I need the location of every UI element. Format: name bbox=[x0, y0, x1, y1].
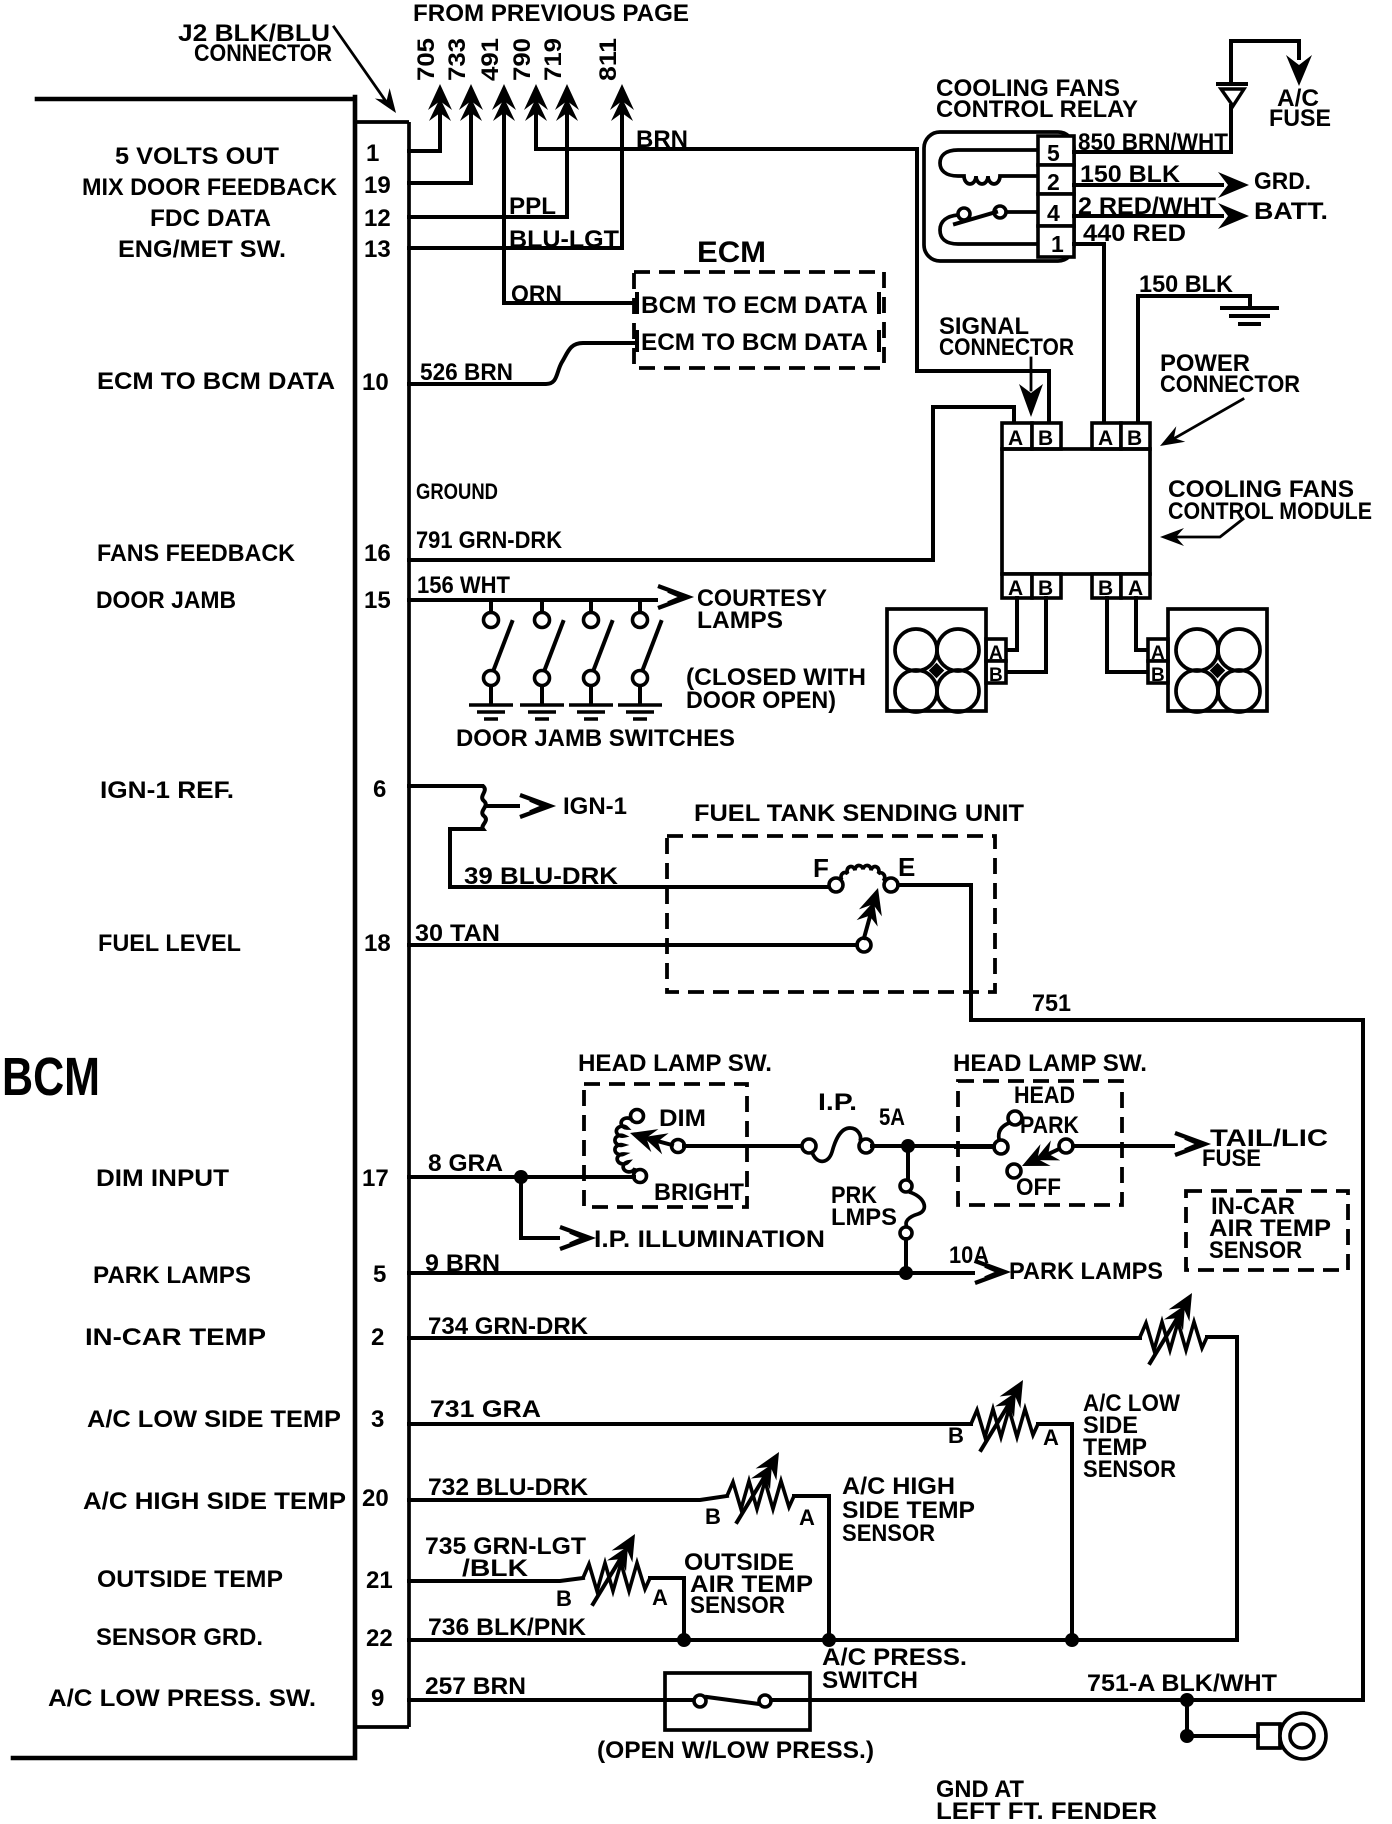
svg-text:PARK: PARK bbox=[1020, 1112, 1080, 1139]
cooling fans control module box bbox=[1002, 449, 1150, 574]
wire 705 arrow up bbox=[428, 84, 452, 151]
svg-text:19: 19 bbox=[364, 172, 391, 199]
svg-text:20: 20 bbox=[362, 1485, 389, 1512]
relay hook pin1 to armature bbox=[940, 215, 1038, 244]
svg-text:FROM PREVIOUS PAGE: FROM PREVIOUS PAGE bbox=[413, 0, 689, 27]
svg-text:790: 790 bbox=[509, 38, 536, 81]
svg-text:SENSOR: SENSOR bbox=[1209, 1237, 1302, 1264]
svg-text:B: B bbox=[989, 665, 1003, 686]
svg-text:IGN-1 REF.: IGN-1 REF. bbox=[100, 777, 234, 804]
right fan connector B bbox=[1148, 661, 1168, 686]
svg-text:GROUND: GROUND bbox=[416, 479, 498, 504]
signal connector box A bbox=[1002, 423, 1032, 450]
svg-text:2: 2 bbox=[371, 1324, 384, 1351]
ring terminal eyelet bbox=[1280, 1713, 1326, 1759]
svg-text:A/C HIGH: A/C HIGH bbox=[842, 1473, 955, 1500]
svg-text:A/C LOW SIDE TEMP: A/C LOW SIDE TEMP bbox=[87, 1406, 341, 1433]
leader arrow J2 connector bbox=[334, 27, 403, 118]
wire 8 GRA pin17 to BRIGHT bbox=[409, 1175, 634, 1179]
sender wiper arrow bbox=[856, 884, 890, 938]
svg-text:B: B bbox=[1151, 665, 1165, 686]
resistor a/c low side temp sensor bbox=[971, 1409, 1038, 1437]
wire diode to A/C fuse arrow bbox=[1231, 41, 1312, 86]
svg-text:BCM TO ECM DATA: BCM TO ECM DATA bbox=[641, 292, 868, 319]
svg-text:DOOR JAMB: DOOR JAMB bbox=[96, 587, 236, 614]
sender terminal F bbox=[829, 878, 843, 892]
terminal tick ECM-to-BCM right bbox=[877, 332, 881, 350]
svg-text:A: A bbox=[652, 1585, 668, 1610]
svg-text:18: 18 bbox=[364, 930, 391, 957]
wiper arrow in-car sensor bbox=[1150, 1287, 1202, 1363]
fuse I.P. 5A bbox=[802, 1128, 873, 1161]
wire 491 arrow up bbox=[492, 84, 516, 303]
wire 811 arrow up bbox=[610, 84, 634, 248]
dimmer contact DIM bbox=[631, 1110, 644, 1123]
BCM connector strip J2 bbox=[355, 122, 409, 1727]
resistor a/c high side temp sensor bbox=[727, 1481, 794, 1509]
svg-text:791 GRN-DRK: 791 GRN-DRK bbox=[416, 527, 563, 554]
svg-text:1: 1 bbox=[366, 140, 379, 167]
svg-text:A: A bbox=[1098, 427, 1113, 450]
wire pin6 with squiggle bbox=[409, 786, 486, 887]
svg-text:17: 17 bbox=[362, 1165, 389, 1192]
svg-text:DOOR OPEN): DOOR OPEN) bbox=[686, 687, 836, 714]
door jamb switch 3 bbox=[584, 600, 613, 703]
wire a/c low sensor A to ground bus bbox=[1038, 1424, 1072, 1640]
svg-text:5A: 5A bbox=[879, 1104, 905, 1131]
svg-text:1: 1 bbox=[1051, 231, 1064, 257]
svg-text:BLU-LGT: BLU-LGT bbox=[509, 226, 619, 253]
wire 9 BRN pin5 to park lamps bbox=[409, 1261, 1005, 1283]
svg-text:30 TAN: 30 TAN bbox=[415, 920, 500, 947]
wire 790 arrow up bbox=[524, 84, 548, 149]
wire 39 BLU-DRK to sender F bbox=[450, 885, 829, 889]
ECM dashed box bbox=[634, 272, 884, 368]
relay coil pins 5-2 bbox=[940, 150, 1038, 184]
junction dot outside sensor ground bbox=[677, 1633, 691, 1647]
svg-text:FUEL TANK SENDING UNIT: FUEL TANK SENDING UNIT bbox=[694, 800, 1024, 827]
wire 734 GRN-DRK pin2 to in-car sensor bbox=[409, 1336, 1140, 1340]
svg-text:B: B bbox=[556, 1586, 572, 1611]
svg-text:491: 491 bbox=[477, 38, 504, 81]
wire ORN from 491 to ECM bbox=[504, 301, 631, 305]
relay pin box 1 bbox=[1038, 226, 1074, 257]
svg-text:733: 733 bbox=[444, 38, 471, 81]
svg-text:10: 10 bbox=[362, 369, 389, 396]
svg-text:OUTSIDE TEMP: OUTSIDE TEMP bbox=[97, 1566, 283, 1593]
svg-text:FDC DATA: FDC DATA bbox=[150, 205, 271, 232]
svg-text:PARK LAMPS: PARK LAMPS bbox=[1009, 1258, 1163, 1285]
svg-text:B: B bbox=[705, 1504, 721, 1529]
svg-text:DOOR JAMB SWITCHES: DOOR JAMB SWITCHES bbox=[456, 725, 735, 752]
svg-text:2: 2 bbox=[1047, 169, 1060, 195]
wire outside sensor A to ground bus bbox=[650, 1578, 684, 1640]
svg-text:DIM: DIM bbox=[659, 1105, 706, 1132]
in-car air temp sensor dashed box bbox=[1186, 1191, 1348, 1270]
wire module B to left fan B bbox=[1006, 598, 1046, 672]
svg-text:719: 719 bbox=[540, 38, 567, 81]
svg-text:9: 9 bbox=[371, 1685, 384, 1712]
door jamb switch 2 bbox=[535, 600, 564, 703]
relay switch blade bbox=[955, 212, 996, 224]
wire a/c high sensor A to ground bus bbox=[794, 1496, 829, 1640]
switch contact PARK bbox=[1059, 1139, 1073, 1153]
relay pin box 4 bbox=[1038, 194, 1074, 226]
relay pin box 2 bbox=[1038, 165, 1074, 195]
wire 791 GRN-DRK pin16 to signal connector A bbox=[409, 407, 1014, 560]
svg-text:5: 5 bbox=[1047, 140, 1060, 166]
leader arrow signal connector bbox=[1019, 358, 1043, 417]
svg-text:751: 751 bbox=[1032, 990, 1071, 1017]
wire head lamp switch to tail/lic fuse bbox=[1073, 1133, 1205, 1155]
svg-text:PARK LAMPS: PARK LAMPS bbox=[93, 1262, 251, 1289]
svg-text:8 GRA: 8 GRA bbox=[428, 1150, 503, 1177]
sender wiper contact bbox=[857, 938, 871, 952]
svg-text:13: 13 bbox=[364, 236, 391, 263]
svg-text:CONNECTOR: CONNECTOR bbox=[194, 40, 332, 67]
svg-text:LAMPS: LAMPS bbox=[697, 607, 783, 634]
module bottom box A right bbox=[1121, 574, 1150, 600]
ground door switch 4 bbox=[618, 705, 662, 719]
wire module A to left fan A bbox=[1006, 598, 1017, 650]
left cooling fan bbox=[887, 609, 986, 712]
svg-text:CONTROL RELAY: CONTROL RELAY bbox=[936, 96, 1138, 123]
svg-text:ENG/MET SW.: ENG/MET SW. bbox=[118, 236, 286, 263]
ground door switch 1 bbox=[469, 705, 513, 719]
svg-text:FANS FEEDBACK: FANS FEEDBACK bbox=[97, 540, 296, 567]
svg-text:751-A BLK/WHT: 751-A BLK/WHT bbox=[1087, 1670, 1277, 1697]
svg-text:CONNECTOR: CONNECTOR bbox=[939, 334, 1074, 361]
svg-text:/BLK: /BLK bbox=[462, 1555, 529, 1582]
diode A/C fuse feed bbox=[1218, 84, 1246, 106]
svg-text:4: 4 bbox=[1047, 200, 1060, 226]
module bottom box A left bbox=[1002, 574, 1032, 600]
svg-text:I.P.: I.P. bbox=[818, 1089, 857, 1116]
fuel tank sending unit dashed box bbox=[667, 836, 995, 992]
wire 736 BLK/PNK sensor ground bus bbox=[409, 1638, 1237, 1642]
module bottom box B left bbox=[1032, 574, 1061, 600]
ground door switch 3 bbox=[569, 705, 613, 719]
press switch contact right bbox=[759, 1695, 771, 1707]
dimmer rheostat coil bbox=[615, 1118, 635, 1172]
wire pin12 to 719 (PPL) bbox=[409, 215, 567, 219]
leader arrow power connector bbox=[1156, 399, 1244, 454]
junction dot a/c low sensor ground bbox=[1065, 1633, 1079, 1647]
terminal tick ECM-to-BCM left bbox=[635, 332, 639, 350]
dimmer wiper contact bbox=[672, 1140, 685, 1153]
BCM module outline boundary bbox=[13, 97, 355, 1758]
right fan connector A bbox=[1148, 639, 1168, 664]
svg-text:A: A bbox=[799, 1505, 815, 1530]
wire pin13 to 811 (BLU-LGT) bbox=[409, 246, 622, 250]
wire branch to IGN-1 arrow bbox=[486, 795, 550, 817]
svg-text:156 WHT: 156 WHT bbox=[417, 572, 510, 599]
svg-text:I.P. ILLUMINATION: I.P. ILLUMINATION bbox=[594, 1226, 825, 1253]
junction dot 8 GRA branch bbox=[514, 1170, 528, 1184]
svg-text:LEFT FT. FENDER: LEFT FT. FENDER bbox=[936, 1798, 1157, 1824]
junction dot 751-A ground tap bbox=[1180, 1693, 1194, 1707]
svg-text:ECM TO BCM DATA: ECM TO BCM DATA bbox=[641, 329, 868, 356]
door jamb switch 1 bbox=[484, 600, 513, 703]
wiper arrow a/c high sensor bbox=[737, 1446, 789, 1522]
wire ground tap to ring terminal bbox=[1187, 1700, 1258, 1736]
svg-text:440 RED: 440 RED bbox=[1083, 220, 1186, 247]
left fan connector B bbox=[986, 661, 1006, 686]
terminal tick BCM-to-ECM right bbox=[877, 294, 881, 312]
svg-text:HEAD: HEAD bbox=[1014, 1082, 1075, 1109]
svg-text:22: 22 bbox=[366, 1625, 393, 1652]
sender terminal E bbox=[884, 878, 898, 892]
svg-text:A/C LOW PRESS. SW.: A/C LOW PRESS. SW. bbox=[48, 1685, 316, 1712]
junction dot prk lmps branch bbox=[901, 1139, 915, 1153]
leader arrow cooling fans module bbox=[1160, 519, 1243, 546]
ground at 150 BLK bbox=[1222, 308, 1277, 324]
svg-text:HEAD LAMP SW.: HEAD LAMP SW. bbox=[953, 1050, 1147, 1077]
relay switch contact fixed bbox=[994, 206, 1006, 218]
relay switch contact movable bbox=[958, 208, 970, 220]
svg-text:150 BLK: 150 BLK bbox=[1080, 161, 1181, 188]
wire pin1 to 705 bbox=[409, 149, 440, 153]
wiper arrow outside sensor bbox=[593, 1528, 645, 1604]
dimmer contact BRIGHT bbox=[634, 1170, 647, 1183]
wire BRN from 790 to signal connector B bbox=[536, 149, 1049, 423]
switch blade arc head bbox=[999, 1123, 1009, 1139]
wire 733 arrow up bbox=[459, 84, 483, 183]
svg-text:5 VOLTS OUT: 5 VOLTS OUT bbox=[115, 143, 279, 170]
svg-text:12: 12 bbox=[364, 205, 391, 232]
svg-text:736 BLK/PNK: 736 BLK/PNK bbox=[428, 1614, 587, 1641]
ring terminal tab bbox=[1258, 1724, 1280, 1748]
junction dot a/c high sensor ground bbox=[822, 1633, 836, 1647]
right cooling fan bbox=[1168, 609, 1267, 712]
resistor in-car temp sensor bbox=[1140, 1322, 1207, 1350]
wire dimmer wiper to fuse bbox=[684, 1144, 802, 1148]
switch contact OFF bbox=[1007, 1164, 1021, 1178]
svg-text:2 RED/WHT: 2 RED/WHT bbox=[1078, 193, 1216, 220]
wire 751 from sender E bbox=[898, 885, 1363, 1700]
svg-text:FUEL LEVEL: FUEL LEVEL bbox=[98, 930, 241, 957]
wire module A to right fan A bbox=[1136, 598, 1148, 650]
wire 2 RED/WHT pin4 to BATT bbox=[1074, 203, 1249, 229]
door jamb switch 4 bbox=[633, 600, 662, 703]
svg-text:F: F bbox=[813, 853, 829, 883]
wire 150 BLK power connector B to ground bbox=[1138, 296, 1250, 423]
wire pin19 to 733 bbox=[409, 181, 471, 185]
wire 850 BRN/WHT pin5 to diode bbox=[1074, 106, 1231, 152]
svg-text:A: A bbox=[1043, 1425, 1059, 1450]
wire 526 BRN pin10 to ECM bbox=[409, 343, 637, 384]
svg-text:B: B bbox=[948, 1423, 964, 1448]
svg-text:16: 16 bbox=[364, 540, 391, 567]
svg-text:A/C HIGH SIDE TEMP: A/C HIGH SIDE TEMP bbox=[83, 1488, 346, 1515]
wire 156 WHT pin15 to courtesy lamps bbox=[409, 586, 688, 608]
svg-text:ECM: ECM bbox=[697, 236, 766, 269]
wire 440 RED pin1 to power connector A bbox=[1074, 244, 1104, 423]
wire 719 arrow up bbox=[555, 84, 579, 217]
wire 735 pin21 to outside sensor bbox=[409, 1578, 583, 1581]
ground door switch 2 bbox=[520, 705, 564, 719]
svg-text:257 BRN: 257 BRN bbox=[425, 1673, 526, 1700]
wire module B to right fan B bbox=[1107, 598, 1148, 672]
press switch blade bbox=[707, 1697, 759, 1704]
svg-text:SENSOR GRD.: SENSOR GRD. bbox=[96, 1624, 263, 1651]
svg-text:BATT.: BATT. bbox=[1254, 198, 1328, 225]
wiper arrow a/c low sensor bbox=[981, 1374, 1033, 1450]
svg-text:CONNECTOR: CONNECTOR bbox=[1160, 371, 1300, 398]
svg-text:B: B bbox=[1127, 427, 1142, 450]
svg-text:5: 5 bbox=[373, 1261, 386, 1288]
press switch contact left bbox=[694, 1695, 706, 1707]
switch pointer arrow to OFF bbox=[1017, 1139, 1061, 1176]
svg-text:FUSE: FUSE bbox=[1269, 105, 1331, 132]
svg-text:734 GRN-DRK: 734 GRN-DRK bbox=[428, 1313, 589, 1340]
svg-text:BRN: BRN bbox=[636, 126, 688, 153]
relay pin box 5 bbox=[1038, 136, 1074, 166]
svg-text:SENSOR: SENSOR bbox=[842, 1520, 935, 1547]
svg-text:705: 705 bbox=[413, 38, 440, 81]
terminal tick BCM-to-ECM left bbox=[635, 294, 639, 312]
svg-text:SENSOR: SENSOR bbox=[690, 1592, 785, 1619]
svg-text:SENSOR: SENSOR bbox=[1083, 1456, 1176, 1483]
svg-text:PPL: PPL bbox=[509, 193, 556, 220]
svg-text:6: 6 bbox=[373, 776, 386, 803]
wire branch to 10A fuse bbox=[906, 1146, 910, 1180]
wire branch to I.P. illumination bbox=[521, 1177, 590, 1249]
wire fuse to head lamp switch bbox=[872, 1144, 994, 1148]
resistor outside air temp sensor bbox=[583, 1563, 650, 1591]
svg-text:15: 15 bbox=[364, 587, 391, 614]
wire 732 BLU-DRK pin20 to a/c high sensor bbox=[409, 1496, 727, 1500]
svg-text:E: E bbox=[898, 852, 915, 882]
svg-text:IGN-1: IGN-1 bbox=[563, 793, 627, 820]
svg-text:BCM: BCM bbox=[2, 1047, 100, 1107]
svg-text:850 BRN/WHT: 850 BRN/WHT bbox=[1078, 129, 1228, 156]
switch contact HEAD bbox=[1008, 1111, 1022, 1125]
switch contact common bbox=[994, 1140, 1008, 1154]
junction dot ring terminal bend bbox=[1180, 1729, 1194, 1743]
svg-text:731 GRA: 731 GRA bbox=[430, 1396, 541, 1423]
relay wire pin4 to contact bbox=[1006, 210, 1038, 214]
wire 731 GRA pin3 to a/c low sensor bbox=[409, 1422, 971, 1426]
svg-text:150 BLK: 150 BLK bbox=[1139, 271, 1234, 298]
junction dot 10A fuse to park lamps bbox=[899, 1266, 913, 1280]
svg-text:3: 3 bbox=[371, 1406, 384, 1433]
svg-text:BRIGHT: BRIGHT bbox=[654, 1179, 744, 1206]
head lamp switch dashed box bbox=[958, 1081, 1122, 1205]
svg-text:CONTROL MODULE: CONTROL MODULE bbox=[1168, 498, 1372, 525]
signal connector box B bbox=[1032, 423, 1061, 450]
svg-text:MIX DOOR FEEDBACK: MIX DOOR FEEDBACK bbox=[82, 174, 338, 201]
svg-text:A: A bbox=[1008, 427, 1023, 450]
wire 150 BLK pin2 to GRD bbox=[1074, 172, 1249, 198]
wire into head lamp switch bbox=[956, 1145, 994, 1149]
cooling fans control relay outline bbox=[924, 132, 1074, 261]
power connector box A bbox=[1092, 423, 1121, 450]
wire 30 TAN pin18 to wiper bbox=[409, 943, 857, 947]
wire 257 BRN pin9 to press switch bbox=[409, 1698, 694, 1702]
svg-text:IN-CAR TEMP: IN-CAR TEMP bbox=[85, 1324, 266, 1351]
svg-text:FUSE: FUSE bbox=[1202, 1145, 1261, 1172]
a/c press switch box bbox=[665, 1673, 810, 1730]
svg-text:DIM INPUT: DIM INPUT bbox=[96, 1165, 229, 1192]
svg-text:21: 21 bbox=[366, 1567, 393, 1594]
svg-text:ORN: ORN bbox=[511, 281, 562, 308]
svg-text:OFF: OFF bbox=[1016, 1174, 1061, 1201]
left fan connector A bbox=[986, 639, 1006, 664]
svg-text:SWITCH: SWITCH bbox=[822, 1667, 918, 1694]
svg-text:HEAD LAMP SW.: HEAD LAMP SW. bbox=[578, 1050, 772, 1077]
svg-text:526 BRN: 526 BRN bbox=[420, 359, 513, 386]
svg-text:LMPS: LMPS bbox=[831, 1204, 897, 1231]
svg-text:732 BLU-DRK: 732 BLU-DRK bbox=[428, 1474, 589, 1501]
svg-text:811: 811 bbox=[595, 38, 622, 81]
fuse PRK LMPS 10A bbox=[900, 1180, 924, 1272]
svg-text:ECM TO BCM DATA: ECM TO BCM DATA bbox=[97, 368, 335, 395]
wire 751-A BLK/WHT bbox=[771, 1698, 1363, 1702]
svg-text:GRD.: GRD. bbox=[1254, 168, 1311, 195]
head lamp switch dimmer dashed box bbox=[584, 1084, 747, 1207]
svg-text:(OPEN W/LOW PRESS.): (OPEN W/LOW PRESS.) bbox=[597, 1737, 874, 1764]
svg-text:B: B bbox=[1038, 427, 1053, 450]
sender resistor coil bbox=[841, 865, 885, 881]
dimmer wiper arrow bbox=[626, 1122, 672, 1156]
wire in-car sensor A to ground bus bbox=[1207, 1337, 1237, 1640]
power connector box B bbox=[1121, 423, 1150, 450]
module bottom box B right bbox=[1092, 574, 1121, 600]
